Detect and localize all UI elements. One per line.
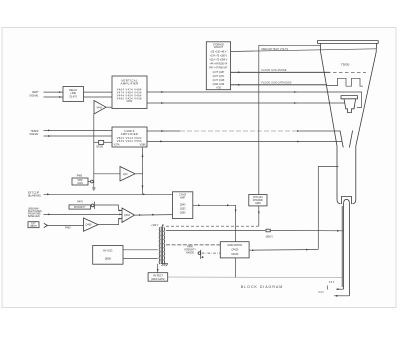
wire crt cathode line -1850 xyxy=(166,229,344,238)
wire Q460 output to mid triangle xyxy=(98,219,122,225)
collimation electrode crenellation xyxy=(327,78,363,86)
wire pos-adj riser xyxy=(258,45,260,194)
storage voltage list box xyxy=(206,42,230,90)
svg-text:Q177 Q148: Q177 Q148 xyxy=(213,80,225,82)
node unblanking pulses label xyxy=(28,207,42,218)
svg-text:CR440: CR440 xyxy=(231,254,239,256)
svg-text:V374: V374 xyxy=(114,143,120,146)
svg-text:SIGNAL: SIGNAL xyxy=(29,133,39,136)
potentiometer R485 gain xyxy=(72,175,93,185)
wire hv osc to transformer upper xyxy=(123,249,158,251)
hv rectifier box xyxy=(148,273,168,282)
svg-text:SIGNAL: SIGNAL xyxy=(29,94,39,97)
wire unblanking line xyxy=(44,214,123,216)
svg-text:INTENSITY: INTENSITY xyxy=(184,250,196,252)
svg-text:HV OSC: HV OSC xyxy=(103,249,113,252)
svg-text:R450: R450 xyxy=(65,228,71,230)
svg-text:AMP: AMP xyxy=(180,196,185,199)
op-amp small vert triangle xyxy=(94,101,106,115)
svg-text:CR330: CR330 xyxy=(96,146,104,148)
wire delay to vert amp upper xyxy=(84,91,113,93)
funnel left edge xyxy=(320,43,340,203)
op-amp lower triangle Q460 xyxy=(84,218,99,231)
node EXT CLIP label xyxy=(28,191,41,197)
gun lead right xyxy=(349,204,351,296)
svg-text:CR420: CR420 xyxy=(231,250,239,252)
funnel right edge xyxy=(353,43,377,203)
svg-text:+134 +75 +285 V: +134 +75 +285 V xyxy=(210,55,228,57)
svg-text:T5030: T5030 xyxy=(341,63,350,67)
wire pos adj box down to +160 line xyxy=(258,206,260,226)
storage target cup flange xyxy=(341,96,358,99)
delay line DL470 xyxy=(63,87,84,102)
vertical amplifier box xyxy=(112,76,147,109)
wire horiz input lower xyxy=(44,135,113,137)
svg-text:INPUT: INPUT xyxy=(30,226,37,228)
node EXT INPUT label xyxy=(28,222,39,228)
svg-text:BLOCK DIAGRAM: BLOCK DIAGRAM xyxy=(241,285,283,289)
svg-text:Q177 Q187: Q177 Q187 xyxy=(213,72,225,74)
wire triangle output to vert amp xyxy=(106,106,112,108)
svg-text:+750: +750 xyxy=(216,87,222,89)
wire ext input to Q460, resistor R450 label xyxy=(48,225,84,229)
svg-text:6.3 V: 6.3 V xyxy=(319,292,325,294)
grid matrix box xyxy=(220,242,249,258)
wire hv osc to transformer lower xyxy=(123,258,158,260)
svg-text:FLOOD GUN CATHODES: FLOOD GUN CATHODES xyxy=(262,81,292,84)
svg-text:V443: V443 xyxy=(97,107,103,109)
svg-text:RANGE: RANGE xyxy=(186,252,195,255)
node HORIZ SIGNAL input label xyxy=(29,130,39,136)
svg-text:R476: R476 xyxy=(77,202,83,204)
svg-text:+25 +130 +48 V: +25 +130 +48 V xyxy=(210,51,227,53)
node VERT SIGNAL input label xyxy=(29,91,39,97)
wire sweep triangle output xyxy=(135,148,143,195)
wire Z axis output to grid matrix xyxy=(193,204,237,241)
svg-text:Z AXIS: Z AXIS xyxy=(179,194,187,197)
wire transformer to hv rect box xyxy=(157,264,159,273)
wire flood gun cathode line with collimator xyxy=(231,81,327,85)
svg-text:Q460: Q460 xyxy=(86,224,93,227)
wire medium-high line to flange xyxy=(259,44,321,46)
svg-text:SWP: SWP xyxy=(77,180,83,182)
wire vert input lower xyxy=(44,96,64,98)
wire mid triangle output to Z axis amp xyxy=(135,214,173,216)
wire vertical bus x94 xyxy=(93,114,95,179)
wire vert input upper xyxy=(44,91,64,93)
svg-text:V214 +75 V284 V: V214 +75 V284 V xyxy=(210,59,228,61)
svg-text:Q444 C130: Q444 C130 xyxy=(213,84,225,86)
svg-text:DL470: DL470 xyxy=(70,96,78,99)
faceplate flange xyxy=(318,41,379,44)
svg-text:POS ADJ: POS ADJ xyxy=(253,196,263,199)
svg-text:GAIN: GAIN xyxy=(77,182,83,185)
svg-text:+160 V: +160 V xyxy=(151,225,159,227)
wire transformer tap to grid matrix xyxy=(166,244,220,246)
potentiometer R494 intensity range xyxy=(184,247,203,259)
horizontal amplifier box xyxy=(112,127,147,147)
svg-text:BASE GEN: BASE GEN xyxy=(28,215,40,218)
svg-text:Q14: Q14 xyxy=(123,174,128,176)
deflection plate right xyxy=(349,131,352,148)
op-amp sweep triangle xyxy=(120,167,135,182)
wire delay to vert amp lower xyxy=(84,96,113,98)
wire horiz input upper xyxy=(44,130,113,132)
svg-text:R494: R494 xyxy=(187,247,193,249)
wire flood gun anode line xyxy=(231,69,366,73)
svg-text:Q808: Q808 xyxy=(105,257,112,260)
svg-text:INTENSITY: INTENSITY xyxy=(74,207,86,209)
svg-text:GRID: GRID xyxy=(255,203,261,205)
node 6.3V heater upper xyxy=(329,282,344,290)
svg-text:INTENSIF: INTENSIF xyxy=(253,200,264,202)
gun cathode cap xyxy=(342,197,352,205)
potentiometer R476 intensity xyxy=(69,202,95,210)
wire grid matrix output to crt grid xyxy=(249,249,318,251)
ground at transformer xyxy=(161,264,168,266)
wire +160 dashed line to pos adj xyxy=(166,225,259,227)
horiz amp output line 2 to CRT plates xyxy=(147,141,342,143)
svg-text:6.3 V: 6.3 V xyxy=(329,282,335,284)
svg-text:CIRCUIT: CIRCUIT xyxy=(214,47,224,49)
horiz amp output line 1 to CRT plates xyxy=(147,130,340,132)
vert amp output line 1 to CRT xyxy=(147,91,362,107)
svg-text:Q463: Q463 xyxy=(124,215,130,217)
node +160V supply xyxy=(151,225,164,228)
svg-text:(GRID GATE): (GRID GATE) xyxy=(151,278,165,281)
Z axis amplifier box xyxy=(173,192,193,219)
wire sweep tap to triangle xyxy=(94,173,120,175)
wire crt grid electrode tap xyxy=(318,167,338,249)
svg-text:AMPLIFIER: AMPLIFIER xyxy=(121,82,139,86)
storage target cup body xyxy=(344,99,356,113)
svg-text:R47 +47 R68 V47: R47 +47 R68 V47 xyxy=(209,67,228,69)
wire screen line from storage box xyxy=(231,49,377,52)
svg-text:HV RECT: HV RECT xyxy=(153,275,164,277)
box pos adj intensifier grid xyxy=(249,195,267,206)
svg-text:+44 +64 R256 V4: +44 +64 R256 V4 xyxy=(210,63,228,65)
svg-text:V494: V494 xyxy=(126,100,132,103)
wire grid matrix bottom to hv line xyxy=(235,258,237,277)
svg-text:FLOOD GUN ANODE: FLOOD GUN ANODE xyxy=(262,69,287,72)
svg-text:GRID MATRIX: GRID MATRIX xyxy=(227,244,242,247)
svg-text:R485: R485 xyxy=(77,175,83,177)
svg-text:(BLANKING): (BLANKING) xyxy=(28,194,41,197)
vert amp output line 2 to CRT xyxy=(147,102,345,104)
svg-text:Q563: Q563 xyxy=(180,212,186,214)
svg-text:EXT CLIP: EXT CLIP xyxy=(28,191,39,194)
svg-text:STORAGE: STORAGE xyxy=(213,44,224,47)
transformer T470 xyxy=(159,227,165,265)
deflection plate left xyxy=(340,131,343,148)
high voltage oscillator box xyxy=(93,246,123,265)
svg-text:Q543: Q543 xyxy=(180,204,186,206)
node 6.3V heater lower xyxy=(319,286,350,297)
wire intensity pot to triangle xyxy=(95,205,123,211)
ground below R485 xyxy=(92,179,96,191)
wire hv rect output to crt gun xyxy=(168,276,342,279)
svg-text:-1850 V: -1850 V xyxy=(265,237,273,239)
capacitor C330 series input xyxy=(94,140,112,148)
op-amp mid triangle Q463 xyxy=(122,208,135,222)
svg-text:V586: V586 xyxy=(140,143,146,146)
svg-text:Q553: Q553 xyxy=(180,208,186,210)
wire ext clip line to Z axis amp xyxy=(44,193,173,195)
wire range pot to grid matrix dash-dot xyxy=(202,252,220,254)
connector ext input jack xyxy=(44,223,48,227)
svg-text:AMPLIFIER: AMPLIFIER xyxy=(121,132,138,136)
svg-text:Q477 Q471: Q477 Q471 xyxy=(213,76,225,78)
gun lead left xyxy=(343,204,345,289)
svg-text:V534 V544 V554: V534 V544 V554 xyxy=(117,140,142,143)
